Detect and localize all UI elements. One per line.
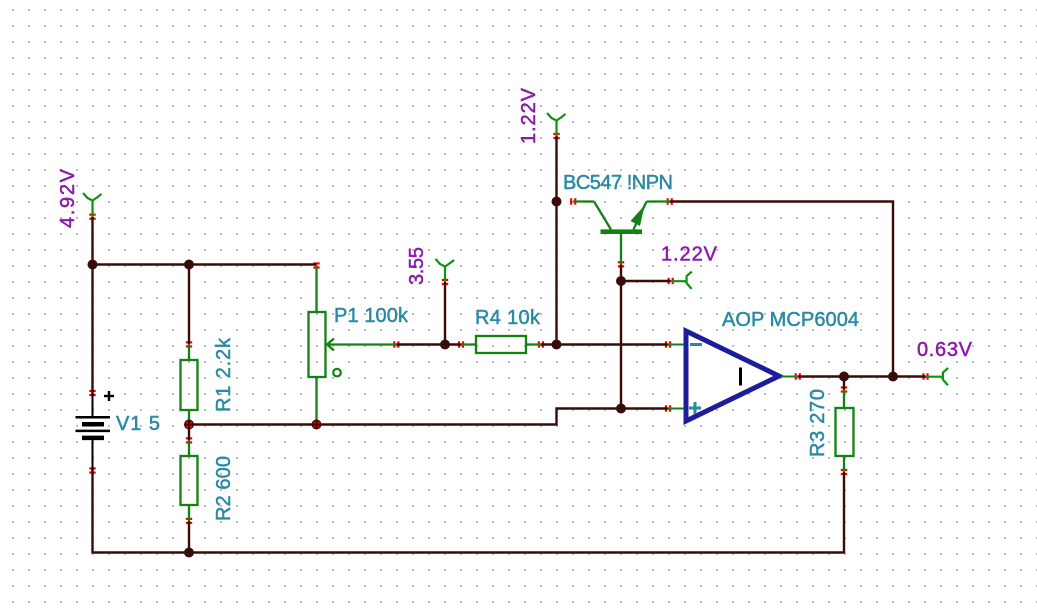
- wire emitter feedback to output node: [670, 202, 893, 377]
- voltage source V1 battery: [76, 391, 115, 471]
- pin marker probe 1.22V top: [553, 133, 559, 139]
- svg-text:0.63V: 0.63V: [917, 339, 973, 361]
- pin marker probe 4.92V: [89, 214, 95, 220]
- pin marker R3 bottom: [841, 469, 847, 475]
- wire bottom ground rail: [92, 551, 846, 553]
- junction R3 top output node: [839, 372, 849, 382]
- op-amp U1 MCP6004: [668, 331, 798, 421]
- junction R1 top node: [184, 260, 194, 270]
- wire R4 right to op-amp minus input: [541, 343, 668, 345]
- svg-text:R4 10k: R4 10k: [475, 307, 541, 329]
- pin marker battery V1 top: [89, 390, 95, 396]
- pin marker R2 bottom: [186, 518, 192, 524]
- pin marker P1 top: [313, 262, 319, 268]
- pin marker Q1 collector: [570, 198, 576, 204]
- resistor R2: [181, 440, 198, 521]
- pin marker R4 left: [458, 341, 464, 347]
- transistor Q1 BC547: [573, 202, 670, 265]
- potentiometer P1: [309, 266, 397, 424]
- pin marker op-amp minus input: [665, 341, 671, 347]
- wire R2 bottom to bottom rail: [188, 521, 190, 553]
- junction divider node R1 R2 pin marker: [186, 422, 192, 428]
- svg-text:BC547 !NPN: BC547 !NPN: [563, 172, 673, 194]
- pin marker probe 0.63V: [922, 373, 928, 379]
- wire probe 3.55 down to wiper node: [444, 282, 446, 346]
- pin marker R3 top: [841, 386, 847, 392]
- svg-text:1.22V: 1.22V: [518, 87, 540, 144]
- svg-text:4.92V: 4.92V: [57, 168, 79, 228]
- svg-text:R3 270: R3 270: [807, 389, 829, 457]
- resistor R1: [181, 344, 198, 423]
- voltage probe 3.55: [436, 259, 455, 282]
- svg-text:R2 600: R2 600: [213, 456, 235, 521]
- wire top rail to P1 top: [92, 263, 317, 265]
- wire divider node to op-amp plus input: [189, 409, 668, 425]
- pin marker P1 wiper: [393, 341, 399, 347]
- pin marker battery V1 bottom: [89, 467, 95, 473]
- voltage probe 1.22V right: [671, 272, 692, 289]
- pin marker probe 1.22V right: [668, 278, 674, 284]
- svg-text:AOP MCP6004: AOP MCP6004: [722, 309, 859, 331]
- junction P1 bottom node: [312, 420, 322, 430]
- junction divider node R1 R2: [184, 420, 194, 430]
- svg-text:R1 2.2k: R1 2.2k: [213, 337, 235, 412]
- voltage probe 1.22V top: [547, 113, 566, 136]
- junction wiper probe node: [440, 340, 450, 350]
- wire divider node stub to R2 top: [188, 425, 190, 441]
- pin marker Q1 emitter: [667, 198, 673, 204]
- wire base node down to plus input node: [620, 264, 622, 408]
- wire battery negative to bottom rail: [91, 467, 93, 554]
- svg-text:P1 100k: P1 100k: [334, 305, 409, 327]
- wire top rail down to R1: [188, 265, 190, 345]
- wire probe 1.22V top down to minus node: [555, 136, 557, 346]
- voltage probe 4.92V: [83, 193, 102, 217]
- junction P1 bottom node pin marker: [314, 422, 320, 428]
- wire R3 bottom to bottom rail: [843, 472, 845, 554]
- wire probe 4.92V to battery positive: [91, 217, 93, 395]
- pin marker Q1 base: [618, 261, 624, 267]
- junction battery node on top rail: [88, 260, 98, 270]
- svg-text:1.22V: 1.22V: [661, 244, 718, 266]
- svg-text:3.55: 3.55: [406, 247, 428, 285]
- junction base probe node: [616, 276, 626, 286]
- junction plus input node: [616, 404, 626, 414]
- junction feedback output node: [888, 372, 898, 382]
- junction collector node: [552, 197, 562, 207]
- resistor R3: [836, 390, 854, 473]
- wire P1 wiper to R4 left: [396, 343, 461, 345]
- pin marker probe 3.55: [442, 279, 448, 285]
- junction minus input node: [552, 340, 562, 350]
- wire op-amp output to probe 0.63V: [798, 375, 926, 377]
- resistor R4: [461, 336, 541, 353]
- pin marker op-amp plus input: [665, 405, 671, 411]
- pin marker R4 right: [538, 341, 544, 347]
- pin marker R2 top: [186, 437, 192, 443]
- pin marker op-amp output: [795, 373, 801, 379]
- svg-text:V1 5: V1 5: [116, 413, 160, 435]
- wire base node to probe 1.22V right: [621, 280, 671, 282]
- pin marker R1 top: [186, 341, 192, 347]
- voltage probe 0.63V: [926, 368, 949, 385]
- junction R2 bottom on rail: [184, 548, 194, 558]
- wire output node stub to R3 top: [843, 377, 845, 390]
